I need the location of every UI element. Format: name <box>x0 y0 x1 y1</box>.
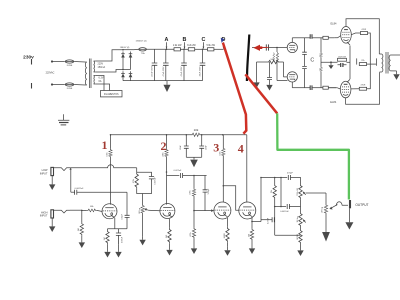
resistor cathode V3 820R <box>226 227 229 243</box>
svg-text:C: C <box>310 57 314 63</box>
node bus decoup b <box>201 134 203 136</box>
wire 56k top stub <box>274 178 276 185</box>
svg-text:LOW: LOW <box>42 168 48 172</box>
wire EL84 lower screen <box>351 88 360 90</box>
wire fuse F2 to transformer <box>74 84 85 87</box>
node spine B top <box>280 177 282 179</box>
spine B slope <box>280 178 282 207</box>
wire HT bottom to bridge <box>95 70 123 73</box>
wire 820R gnd <box>227 243 229 247</box>
node divider top <box>193 175 195 177</box>
wire OT secondary bottom <box>393 70 397 72</box>
red number 2 <box>161 139 167 153</box>
svg-text:47uF 450V: 47uF 450V <box>163 66 165 76</box>
svg-text:820R: 820R <box>224 233 226 238</box>
svg-text:4: 4 <box>238 141 244 155</box>
wire bus to R plate1 <box>110 135 112 149</box>
diode D3 <box>129 52 133 60</box>
ladder vertical 1 PI <box>304 38 306 52</box>
ground arrow cathode bus <box>328 62 333 69</box>
label 1N4007 x4 <box>136 41 147 43</box>
wire tone bottom rail <box>275 234 301 236</box>
label FILAMENTOS <box>104 93 119 96</box>
label 68k <box>90 206 94 208</box>
svg-text:230v: 230v <box>23 54 34 60</box>
label heater 6.3V <box>99 77 104 80</box>
ground symbol 1M <box>79 239 85 248</box>
wire NFB right <box>367 63 377 65</box>
svg-text:470R: 470R <box>361 85 366 87</box>
resistor screen upper 470R <box>360 32 367 35</box>
wire bridge col A upper <box>122 60 124 70</box>
svg-text:10k: 10k <box>248 233 250 237</box>
label 10k bus <box>194 128 199 132</box>
red annotation line from D <box>223 43 246 134</box>
ladder vertical 1 bottom <box>304 69 306 88</box>
wire bright cap down <box>204 192 206 211</box>
label NFB resistor <box>270 59 274 61</box>
label 230v mains <box>23 54 34 60</box>
wire bus B to C <box>195 48 208 50</box>
tube V4a phase inverter triode <box>287 42 297 52</box>
wire 1k5 gnd <box>169 244 171 247</box>
node D arrow tick <box>223 42 225 48</box>
label cap 100uF 450V <box>152 65 154 77</box>
label 1M tail <box>297 233 299 240</box>
resistor plate V1 100k <box>109 149 112 158</box>
svg-text:470k: 470k <box>190 232 192 236</box>
wire low cap lead <box>71 191 75 193</box>
jack J2 high input <box>51 210 54 218</box>
resistor interstage 470k <box>135 172 138 189</box>
red number 1 <box>102 138 108 152</box>
wire into PI coupling cap <box>252 47 266 49</box>
svg-text:100uF 450V: 100uF 450V <box>152 65 154 77</box>
svg-text:0.47uF: 0.47uF <box>268 217 270 224</box>
wire divider drop <box>193 176 195 189</box>
red number 3 <box>213 141 219 155</box>
ground symbol 820R <box>224 247 230 256</box>
red number 4 <box>238 141 244 155</box>
wire bus C to D <box>214 48 224 50</box>
wire top rail mid <box>312 37 323 39</box>
green annotation line <box>277 113 349 199</box>
diode D1 <box>121 52 125 60</box>
label screen R upper <box>361 29 366 31</box>
terminal node L <box>51 60 53 62</box>
pot wiper volume <box>144 208 148 211</box>
capacitor ladder lower <box>302 66 307 68</box>
wire EL84 lower plate <box>346 72 380 104</box>
wire PI grid B from rail <box>283 62 285 77</box>
wire divider gnd stem <box>193 238 195 245</box>
wire cath cap top <box>118 229 120 233</box>
ladder vertical 2 PI top <box>320 38 322 53</box>
svg-text:100k: 100k <box>107 152 109 156</box>
wire decoup cap1 down <box>185 148 187 157</box>
ground symbol 2k7 <box>104 249 110 258</box>
wire bus to R plate3 <box>222 135 224 148</box>
label INPUT low <box>40 172 48 176</box>
wire bridge col A lower <box>122 79 124 80</box>
svg-text:220k: 220k <box>163 152 165 156</box>
svg-text:5.6k 2W: 5.6k 2W <box>206 45 215 47</box>
resistor NFB 100k <box>267 60 280 63</box>
svg-text:1M: 1M <box>78 228 80 231</box>
label 100k plate1 <box>107 152 109 156</box>
ground arrow master pot <box>322 232 330 242</box>
wire bus fuse to cap C1 <box>146 48 174 50</box>
node bridge AC mid <box>122 69 124 71</box>
svg-text:470k: 470k <box>133 179 135 183</box>
wire master pot gnd stem <box>325 214 327 232</box>
label 820R <box>224 233 226 238</box>
label 1N4007 left <box>120 47 130 49</box>
resistor grid EL84 bottom <box>323 86 328 89</box>
wire bus down to cap 100uF 450V at x154.5 <box>154 49 156 63</box>
node bus stage1 <box>110 134 112 136</box>
node C arrow tick <box>203 42 205 48</box>
svg-text:0.0022uF: 0.0022uF <box>280 211 289 213</box>
svg-text:6A: 6A <box>99 80 102 83</box>
wire 470pF to treble pot <box>291 178 301 185</box>
svg-text:1M RD: 1M RD <box>297 233 299 240</box>
label R3 5.6k 2W <box>206 45 215 47</box>
wire 0.0022 to pots <box>289 206 300 208</box>
mains plug prong bottom <box>31 83 33 89</box>
ground symbol PI left <box>253 79 259 88</box>
wire V1 cathode rail <box>108 228 128 230</box>
svg-text:3: 3 <box>213 141 219 155</box>
wire top rail to EL84 grid <box>328 37 334 39</box>
svg-text:B: B <box>183 37 187 43</box>
wire series cap drop <box>126 192 128 215</box>
wire V3 cathode <box>227 218 229 227</box>
svg-text:470k: 470k <box>190 190 192 194</box>
capacitor PI out top <box>307 34 313 39</box>
svg-text:FUSE: FUSE <box>67 88 73 90</box>
fuse F3 <box>139 48 147 51</box>
svg-text:1N4007 (4): 1N4007 (4) <box>120 47 130 49</box>
svg-text:EL84: EL84 <box>330 22 337 26</box>
wire 2k7 gnd <box>107 244 109 248</box>
svg-text:22uF: 22uF <box>205 144 207 149</box>
svg-text:2k7: 2k7 <box>104 236 106 240</box>
svg-text:0.0022uF: 0.0022uF <box>75 188 85 190</box>
capacitor bright 500pF <box>203 190 208 192</box>
svg-text:0.005uF: 0.005uF <box>154 177 156 185</box>
transformer T1 core <box>89 59 91 89</box>
wire bottom rail mid <box>312 87 323 89</box>
node 56k top <box>274 177 276 179</box>
resistor ladder upper 470k <box>320 52 323 57</box>
wire series cap down <box>126 217 128 228</box>
wire heater to filaments left <box>95 76 104 91</box>
wire wiper to V2 grid <box>148 209 160 212</box>
svg-text:47uF 450V: 47uF 450V <box>181 66 183 76</box>
wire output jack gnd stem <box>348 208 350 222</box>
wire cathode cluster right <box>347 61 351 63</box>
wire V3 plate to V4 grid <box>223 186 239 211</box>
node tone mid left <box>274 206 276 208</box>
pot wiper master <box>329 205 337 210</box>
wire bridge col B lower <box>130 79 132 80</box>
node high input junction <box>81 210 83 212</box>
ground symbol divider <box>191 245 197 254</box>
resistor tail 1M <box>299 229 302 244</box>
svg-text:68k: 68k <box>90 206 94 208</box>
mains plug prong top <box>31 59 33 65</box>
wire tail gnd <box>300 244 302 247</box>
label NFB 22k <box>361 60 364 62</box>
wire plate2 down <box>166 158 168 205</box>
capacitor PI coupling 0.1uF <box>266 44 268 50</box>
label 470k divider <box>190 190 192 194</box>
resistor NFB 22k <box>359 63 366 66</box>
wire treble pot bottom <box>300 199 302 212</box>
wire PI cap gnd drop <box>269 62 271 78</box>
wire EL84 upper screen <box>351 33 360 35</box>
capacitor 0.0022uF low input <box>75 190 77 195</box>
wire PI grid down to R <box>276 48 278 53</box>
capacitor cathode bypass EL84 <box>338 63 347 67</box>
label cap 47uF 450V <box>163 66 165 76</box>
ground symbol vol pot <box>139 236 145 245</box>
node bus decoup a <box>186 134 188 136</box>
label 470k divider lower <box>190 232 192 236</box>
label EL84 lower <box>330 100 337 104</box>
svg-text:2.2k 2W: 2.2k 2W <box>173 45 182 47</box>
ground symbol 1k5 <box>166 247 172 256</box>
capacitor PI out bottom <box>307 85 313 90</box>
wire EL84 lower cathode <box>347 79 350 82</box>
svg-text:A: A <box>165 37 169 43</box>
wire 56k bottom long <box>274 199 276 235</box>
svg-text:700k-1M: 700k-1M <box>297 188 299 196</box>
wire cf cathode rail <box>252 221 261 223</box>
svg-text:470pF: 470pF <box>287 172 294 174</box>
wire cap 22uF 450V to rail <box>202 65 204 80</box>
label 0.022uF coupling <box>174 170 182 172</box>
resistor PI bias 470k <box>273 53 275 62</box>
wire V2 cathode <box>169 219 171 228</box>
wire cap 47uF 450V to rail <box>165 65 167 80</box>
jack J2 tip wire with switch notch <box>54 210 71 213</box>
label 1M bass <box>297 216 299 222</box>
label 0.68uF <box>122 236 124 243</box>
blue cursor arrow at node D <box>221 38 225 43</box>
label 1k5 <box>166 234 168 238</box>
svg-text:1M log: 1M log <box>297 216 299 222</box>
wire PI bypass to gnd <box>269 80 271 82</box>
svg-text:22k: 22k <box>361 60 364 62</box>
tube V6 EL84 lower <box>340 81 351 98</box>
wire tone top rail <box>261 177 287 179</box>
svg-text:22uF: 22uF <box>180 144 182 149</box>
svg-text:500pF: 500pF <box>208 188 210 194</box>
label 1M master <box>321 207 323 213</box>
label cap 22uF 450V <box>200 66 202 76</box>
diode D4 <box>129 71 133 79</box>
node plate2 junction <box>166 171 168 173</box>
wire interstage bottoms join <box>137 182 152 194</box>
svg-text:T1A: T1A <box>141 52 145 55</box>
capacitor decoupling 22uF b <box>199 146 204 148</box>
label 700k-1M <box>297 188 299 196</box>
capacitor 47uF 450V at x184 <box>181 63 187 65</box>
wire bridge top rail <box>123 49 134 51</box>
wire PI tail left vertical <box>256 62 258 79</box>
node A arrow tick <box>166 42 168 48</box>
resistor PI grid 1M <box>276 52 278 62</box>
wire EL84 upper cathode <box>347 42 350 45</box>
wire HT top to bridge <box>95 50 123 61</box>
node plate3 junction <box>223 185 225 187</box>
svg-text:1M log: 1M log <box>139 208 141 214</box>
output transformer core <box>386 52 388 74</box>
jack J3 output <box>349 200 351 208</box>
node bias junction <box>330 61 332 63</box>
chassis ground symbol <box>58 114 69 125</box>
resistor screen lower 470R <box>359 87 366 90</box>
wire NFB right tick <box>375 58 377 65</box>
resistor cathode V4 10k <box>250 228 253 240</box>
wire heater to filaments right <box>95 84 109 91</box>
svg-text:100pF: 100pF <box>122 213 124 219</box>
node label A <box>165 37 169 43</box>
svg-text:56k: 56k <box>271 190 273 193</box>
wire PI grid B <box>284 76 288 78</box>
wire divider mid <box>193 197 195 228</box>
red annotation arrow <box>253 45 268 51</box>
label 220k plate2 <box>163 152 165 156</box>
red annotation line to green <box>245 74 277 113</box>
filaments box <box>101 91 123 97</box>
label INPUT high <box>40 214 48 218</box>
node bus stage3 <box>222 134 224 136</box>
svg-text:1N4007 (4): 1N4007 (4) <box>136 41 147 43</box>
ground arrow decoupling <box>190 157 198 167</box>
svg-text:0.68uF: 0.68uF <box>122 236 124 243</box>
ground rail PSU <box>134 80 203 82</box>
ground symbol PI bypass <box>266 82 272 91</box>
node low input junction arrow <box>69 168 71 170</box>
wire EL84 upper plate <box>346 19 379 54</box>
label 22uF b <box>205 144 207 149</box>
wire fuse F1 to transformer <box>74 61 85 64</box>
transformer T1 HT secondary winding <box>94 61 96 72</box>
wire NFB rail left <box>257 61 268 63</box>
black marker line <box>247 35 249 82</box>
wire bus down to cap 22uF 450V at x202.5 <box>202 49 204 63</box>
wire join to pot <box>142 194 144 205</box>
wire PI plate B down <box>291 82 293 88</box>
svg-text:FILAMENTOS: FILAMENTOS <box>104 93 119 96</box>
wire grid3 feed with arrow <box>194 209 214 212</box>
wire bus down to cap 47uF 450V at x184 <box>183 49 185 63</box>
wire bus to decoup cap2 <box>201 135 203 146</box>
node label C <box>201 37 205 43</box>
ground symbol jack1 <box>49 181 55 190</box>
wire high input across <box>70 209 82 211</box>
wire cath cap gnd <box>118 244 120 248</box>
label 10k cf <box>248 233 250 237</box>
label 500pF bright <box>208 188 210 194</box>
wire EL84 lower grid <box>328 88 340 89</box>
terminal node N <box>51 83 53 85</box>
resistor plate V3 100k <box>222 148 225 157</box>
wire bus down to cap 47uF 450V at x165.8 <box>165 49 167 63</box>
resistor ladder lower 470k <box>320 67 323 72</box>
wire L to fuse F1 <box>52 61 65 63</box>
resistor cathode 130R box <box>338 58 347 61</box>
wire cap 100uF 450V to rail <box>154 65 156 80</box>
tube V4b phase inverter triode <box>287 72 297 82</box>
resistor input 1M <box>80 222 83 236</box>
ground symbol cath cap <box>115 249 121 258</box>
wire 2k7 top <box>107 229 109 230</box>
node bus stage2 <box>166 134 168 136</box>
capacitor PI bypass <box>267 78 272 80</box>
wire bridge to fuse F3 <box>134 48 139 50</box>
capacitor tone 470pF <box>288 175 290 180</box>
wire pot to gnd stem <box>142 214 144 236</box>
wire to 68k <box>82 209 87 211</box>
wire 1M drop <box>81 210 83 222</box>
ladder vertical 2 mid <box>320 58 322 67</box>
fuse F1 <box>65 60 75 63</box>
label fuse F3 T1A <box>141 52 145 55</box>
svg-text:EL84: EL84 <box>330 100 337 104</box>
node V4 cathode <box>251 221 253 223</box>
wire PI bottom rail <box>292 87 306 89</box>
wire preamp bus left <box>111 134 192 136</box>
wire interstage drop <box>136 168 138 173</box>
wire 68k to V1 grid <box>97 210 102 211</box>
wire bass pot to tail <box>300 227 302 229</box>
resistor plate V2 220k <box>165 149 168 158</box>
label C mark <box>310 57 314 63</box>
node PI grid junction <box>276 47 278 49</box>
ground symbol tone tail <box>297 247 303 256</box>
ladder vertical 2 bottom <box>320 72 322 88</box>
resistor R1 2.2k bus <box>174 48 180 51</box>
ground arrow output large <box>345 222 353 229</box>
tone spine <box>260 178 262 222</box>
label fuse F1 <box>67 65 73 67</box>
output transformer secondary winding <box>389 55 392 71</box>
wire bus to R plate2 <box>166 135 168 149</box>
wire plate1 down <box>110 158 112 205</box>
label 470k interstage <box>133 179 135 183</box>
transformer T1 primary winding <box>85 62 87 85</box>
capacitor coupling 0.022uF <box>180 173 182 178</box>
pot wiper treble <box>303 192 306 195</box>
wire cf 10k gnd <box>251 241 253 246</box>
label 1M <box>78 228 80 231</box>
svg-text:HIGH: HIGH <box>41 210 48 214</box>
capacitor 22uF 450V at x202.5 <box>200 63 206 65</box>
node B arrow tick <box>184 42 186 48</box>
label 56k tone <box>271 190 273 193</box>
wire cathode bus <box>321 61 338 63</box>
label HT secondary 220V <box>98 63 104 66</box>
node bus at B <box>183 49 185 51</box>
svg-text:10k: 10k <box>194 128 199 132</box>
label fuse F2 <box>67 88 73 90</box>
resistor divider 470k <box>192 188 195 197</box>
wire bright cap drop <box>204 176 206 190</box>
